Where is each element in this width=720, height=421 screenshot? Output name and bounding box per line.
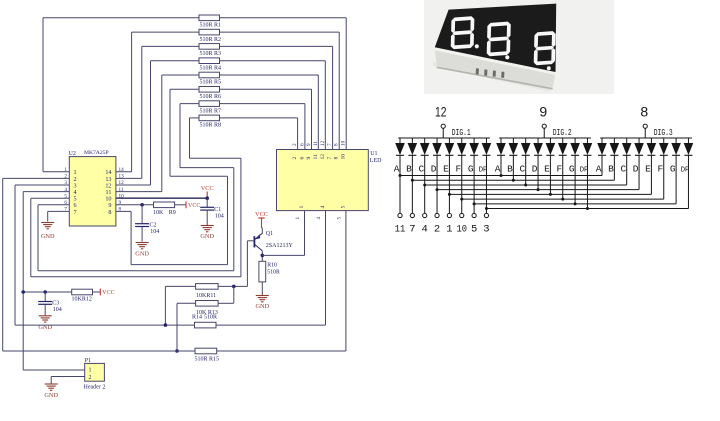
- wire R7 drop to U1 pin: [304, 104, 306, 150]
- wire U2 pin10 to VCC/C1 node: [116, 197, 207, 199]
- diode DIG.1 seg D: [436, 138, 438, 143]
- svg-text:C1: C1: [214, 207, 221, 213]
- diode DIG.2 seg C: [525, 138, 527, 143]
- wire P1 pin2 to ground: [51, 376, 84, 378]
- diode DIG.3 seg DP: [687, 138, 689, 143]
- svg-text:4: 4: [320, 206, 326, 209]
- svg-text:10K: 10K: [153, 210, 164, 216]
- wire U2 pin4 left/down to P1: [23, 191, 69, 193]
- svg-text:10: 10: [119, 193, 125, 199]
- wire R14 row: [15, 324, 195, 326]
- svg-text:8: 8: [334, 143, 340, 146]
- wire R6 drop to U1 pin: [311, 89, 313, 149]
- wire R8 drop to U1 pin: [297, 118, 299, 150]
- diode DIG.3 seg G: [675, 138, 677, 143]
- resistor R5: [199, 72, 220, 78]
- digit 8. #3: [534, 31, 556, 66]
- svg-text:DIG.2: DIG.2: [553, 127, 572, 138]
- svg-text:2: 2: [292, 143, 298, 146]
- wire U2 pin8 down: [116, 210, 131, 212]
- svg-text:7: 7: [64, 207, 67, 213]
- svg-text:2: 2: [89, 375, 92, 381]
- node R13/R15: [175, 349, 179, 353]
- decimal point 1: [475, 44, 479, 48]
- cathode pin 4: [424, 155, 426, 213]
- node C3 top: [43, 290, 47, 294]
- junction DIG.1 DP: [485, 207, 488, 210]
- svg-text:1: 1: [295, 217, 301, 220]
- diode DIG.1 seg G: [473, 138, 475, 143]
- cathode pin 10: [461, 155, 463, 213]
- svg-text:GND: GND: [135, 251, 149, 258]
- wire U2 pin3 left/down: [15, 184, 69, 186]
- svg-text:10: 10: [457, 224, 468, 236]
- net segment F bus: [462, 198, 664, 200]
- stub DIG.2 B: [512, 155, 514, 180]
- wire U2 pin11 to R5: [116, 191, 162, 193]
- svg-text:12: 12: [320, 140, 326, 146]
- wire R11 left: [165, 285, 195, 287]
- svg-text:C3: C3: [52, 300, 59, 306]
- wire U2 pin7 to ground: [48, 210, 70, 212]
- svg-text:11: 11: [395, 224, 406, 236]
- capacitor C1: [206, 198, 208, 207]
- junction DIG.1 E: [448, 193, 451, 196]
- svg-text:VCC: VCC: [102, 290, 114, 296]
- svg-text:11: 11: [313, 141, 319, 146]
- svg-text:C: C: [620, 164, 626, 175]
- cathode pin 7: [411, 155, 413, 213]
- anode bus DIG.3: [600, 137, 692, 139]
- wire U2 pin6 stub: [38, 204, 69, 206]
- stub DIG.2 A: [500, 155, 502, 175]
- decimal point 2: [505, 55, 509, 59]
- wire R7 right: [220, 103, 305, 105]
- svg-text:9: 9: [119, 200, 122, 206]
- svg-text:LED: LED: [370, 158, 382, 164]
- resistor R2: [199, 29, 220, 35]
- svg-text:2: 2: [64, 174, 67, 180]
- stub DIG.2 E: [549, 155, 551, 194]
- diode DIG.3 seg D: [638, 138, 640, 143]
- wire U2 pin1 to R1: [42, 18, 44, 172]
- svg-text:10: 10: [341, 154, 347, 160]
- wire R8 left: [190, 117, 200, 119]
- svg-text:510R R6: 510R R6: [200, 94, 222, 100]
- stub DIG.3 B: [613, 155, 615, 180]
- svg-text:510R R7: 510R R7: [200, 108, 222, 114]
- svg-text:2SA1213Y: 2SA1213Y: [266, 243, 294, 249]
- net segment D bus: [437, 189, 639, 191]
- junction DIG.1 C: [423, 183, 426, 186]
- wire C3/R12 net: [23, 291, 71, 293]
- svg-text:7: 7: [327, 143, 333, 146]
- net segment DP bus: [486, 208, 688, 210]
- svg-text:510R R2: 510R R2: [200, 37, 222, 43]
- svg-text:8: 8: [119, 207, 122, 213]
- diode DIG.3 seg C: [626, 138, 628, 143]
- diode DIG.2 seg B: [512, 138, 514, 143]
- diode DIG.1 seg C: [424, 138, 426, 143]
- svg-text:4: 4: [422, 224, 428, 236]
- stub DIG.3 DP: [687, 155, 689, 208]
- node pin9/C2 junction: [140, 203, 144, 207]
- junction DIG.2 E: [549, 193, 552, 196]
- svg-text:11: 11: [313, 154, 319, 160]
- pin 12 common anode: [441, 124, 445, 128]
- svg-text:D: D: [633, 164, 639, 175]
- svg-text:C2: C2: [150, 222, 157, 228]
- diode DIG.2 seg E: [549, 138, 551, 143]
- anode bus DIG.1: [398, 137, 490, 139]
- resistor R15: [195, 348, 217, 354]
- junction DIG.1 F: [460, 198, 463, 201]
- wire R13 right: [218, 302, 234, 304]
- diode DIG.3 seg F: [663, 138, 665, 143]
- svg-text:1: 1: [446, 224, 452, 236]
- diode DIG.3 seg E: [650, 138, 652, 143]
- diode DIG.1 seg F: [461, 138, 463, 143]
- ground C3: [39, 315, 52, 317]
- wire R2 right: [220, 31, 340, 33]
- svg-text:510R R15: 510R R15: [195, 356, 220, 362]
- svg-text:6: 6: [299, 143, 305, 146]
- svg-text:9: 9: [539, 104, 547, 120]
- wire base to R11 node: [247, 240, 254, 242]
- stub DIG.3 F: [663, 155, 665, 199]
- svg-text:10: 10: [341, 140, 347, 146]
- wire R5 left: [162, 74, 199, 76]
- svg-text:A: A: [394, 164, 400, 175]
- svg-text:GND: GND: [44, 392, 58, 399]
- header P1: [85, 363, 105, 381]
- wire R6 right: [220, 88, 312, 90]
- wire U2 pin5 stub: [31, 197, 70, 199]
- svg-text:5: 5: [64, 193, 67, 199]
- junction DIG.2 G: [574, 202, 577, 205]
- svg-text:510R R5: 510R R5: [200, 80, 222, 86]
- svg-text:P1: P1: [85, 358, 91, 364]
- diode DIG.3 seg A: [601, 138, 603, 143]
- diode DIG.3 seg B: [613, 138, 615, 143]
- node P1 branch: [21, 290, 25, 294]
- cathode pin 11: [399, 155, 401, 213]
- svg-text:7: 7: [327, 157, 333, 160]
- svg-text:3: 3: [483, 224, 489, 236]
- stub DIG.2 D: [537, 155, 539, 189]
- svg-text:6: 6: [299, 157, 305, 160]
- svg-text:2: 2: [292, 157, 298, 160]
- svg-text:G: G: [468, 164, 474, 175]
- svg-text:DIG.3: DIG.3: [654, 127, 673, 138]
- wire route R6 to U2 pin8: [169, 89, 171, 176]
- svg-text:C: C: [519, 164, 525, 175]
- net segment B bus: [412, 179, 614, 181]
- wire R12 to VCC: [93, 291, 101, 293]
- svg-text:GND: GND: [41, 233, 55, 240]
- wire U1 pin5 drop: [345, 211, 347, 351]
- transistor Q1 2SA1213Y: [261, 228, 263, 234]
- svg-text:B: B: [507, 164, 513, 175]
- svg-text:D: D: [532, 164, 538, 175]
- resistor R14: [195, 322, 217, 328]
- wire R4 drop to U1 pin: [324, 61, 326, 150]
- digit 8. #1: [451, 16, 475, 49]
- wire route R8 to U2 pin5: [189, 118, 191, 158]
- wire R7 left: [180, 103, 199, 105]
- svg-text:3: 3: [64, 180, 67, 186]
- svg-text:12: 12: [435, 104, 447, 120]
- wire R5 drop to U1 pin: [317, 75, 319, 150]
- diode DIG.1 seg A: [399, 138, 401, 143]
- wire R4 left: [151, 60, 200, 62]
- net segment G bus: [474, 203, 676, 205]
- junction DIG.2 DP: [586, 207, 589, 210]
- resistor R9: [154, 202, 175, 208]
- svg-text:5: 5: [336, 217, 342, 220]
- diode DIG.1 seg E: [448, 138, 450, 143]
- wire C2 stem: [141, 205, 143, 224]
- svg-text:10KR11: 10KR11: [196, 293, 216, 299]
- wire R1 left: [43, 17, 199, 19]
- ground P1: [45, 383, 58, 385]
- svg-text:8: 8: [640, 104, 648, 120]
- svg-text:G: G: [670, 164, 676, 175]
- junction DIG.1 G: [473, 202, 476, 205]
- svg-text:GND: GND: [255, 303, 269, 310]
- stub DIG.3 D: [638, 155, 640, 189]
- wire R4 right: [220, 60, 326, 62]
- svg-text:Header 2: Header 2: [84, 385, 106, 391]
- junction DIG.1 D: [436, 188, 439, 191]
- stub DIG.3 A: [601, 155, 603, 175]
- resistor R6: [199, 87, 220, 93]
- cathode pin 1: [448, 155, 450, 213]
- stub DIG.2 C: [525, 155, 527, 185]
- diode DIG.2 seg A: [500, 138, 502, 143]
- cathode pin 3: [485, 155, 487, 213]
- diode DIG.2 seg F: [562, 138, 564, 143]
- wire R3 right: [220, 45, 333, 47]
- svg-text:VCC: VCC: [255, 211, 268, 218]
- resistor R8: [199, 115, 220, 121]
- svg-text:9: 9: [306, 143, 312, 146]
- svg-text:8: 8: [334, 157, 340, 160]
- ground U2 pin7: [41, 222, 54, 224]
- svg-text:14: 14: [119, 167, 125, 173]
- photo 3-digit 7-segment display module: [424, 0, 614, 94]
- svg-text:B: B: [608, 164, 614, 175]
- diode DIG.2 seg G: [574, 138, 576, 143]
- resistor R13: [196, 301, 219, 307]
- svg-text:8: 8: [108, 209, 111, 216]
- wire R1 drop to U1 pin: [345, 18, 347, 150]
- power VCC at R12: [99, 289, 101, 296]
- IC U1 LED display: [277, 150, 369, 211]
- svg-text:104: 104: [150, 229, 159, 235]
- svg-text:Q1: Q1: [266, 231, 273, 237]
- resistor R10: [259, 261, 266, 282]
- pin 9 common anode: [542, 124, 546, 128]
- svg-text:A: A: [495, 164, 501, 175]
- decimal point 3: [547, 66, 551, 70]
- digit 8. #2: [487, 21, 511, 56]
- svg-text:E: E: [544, 164, 550, 175]
- resistor R12: [72, 289, 93, 295]
- wire U2 pin2 left/down: [3, 177, 70, 179]
- svg-text:E: E: [443, 164, 449, 175]
- svg-text:MK7A25P: MK7A25P: [84, 150, 109, 156]
- svg-text:GND: GND: [200, 233, 214, 240]
- svg-text:7: 7: [409, 224, 415, 236]
- svg-text:9: 9: [306, 157, 312, 160]
- ground C1: [201, 225, 214, 227]
- resistor R11: [196, 284, 219, 290]
- junction DIG.2 C: [524, 183, 527, 186]
- resistor R1: [199, 15, 220, 21]
- svg-text:510R: 510R: [267, 270, 280, 276]
- svg-text:VCC: VCC: [188, 203, 200, 209]
- junction DIG.2 A: [500, 174, 503, 177]
- junction DIG.2 B: [512, 179, 515, 182]
- svg-text:104: 104: [215, 214, 224, 220]
- svg-text:7: 7: [74, 209, 77, 216]
- stub DIG.2 G: [574, 155, 576, 204]
- svg-text:5: 5: [471, 224, 477, 236]
- wire R2 left: [132, 31, 199, 33]
- svg-text:E: E: [645, 164, 651, 175]
- wire R10 to ground: [261, 282, 263, 295]
- svg-text:13: 13: [119, 174, 125, 180]
- power VCC at R9: [185, 201, 187, 208]
- resistor R3: [199, 44, 220, 50]
- IC U2 MK7A25P: [69, 157, 116, 226]
- svg-text:R9: R9: [169, 210, 176, 216]
- cathode pin 5: [473, 155, 475, 213]
- junction DIG.1 A: [399, 174, 402, 177]
- stub DIG.3 G: [675, 155, 677, 204]
- wire U2 pin14 to R2: [116, 171, 132, 173]
- diode DIG.2 seg D: [537, 138, 539, 143]
- junction DIG.1 B: [411, 179, 414, 182]
- wire R1 right: [220, 17, 347, 19]
- wire R11 right to base: [218, 285, 247, 287]
- wire R6 left: [170, 88, 199, 90]
- resistor R7: [199, 101, 220, 107]
- wire U2 pin13 to R3: [116, 177, 142, 179]
- node R11/R14: [164, 323, 168, 327]
- svg-text:104: 104: [53, 307, 62, 313]
- diode DIG.1 seg DP: [485, 138, 487, 143]
- svg-text:12: 12: [119, 180, 125, 186]
- wire R5 right: [220, 74, 319, 76]
- stub DIG.2 F: [562, 155, 564, 199]
- junction DIG.2 D: [537, 188, 540, 191]
- svg-text:510R R3: 510R R3: [200, 51, 222, 57]
- svg-text:F: F: [556, 164, 562, 175]
- svg-text:10KR12: 10KR12: [72, 297, 92, 303]
- svg-text:4: 4: [64, 187, 67, 193]
- svg-text:11: 11: [119, 187, 124, 193]
- net segment C bus: [425, 184, 627, 186]
- svg-text:D: D: [431, 164, 437, 175]
- diode DIG.1 seg B: [411, 138, 413, 143]
- capacitor C2: [135, 223, 149, 225]
- wire P1 pin1: [23, 369, 84, 371]
- svg-text:6: 6: [64, 200, 67, 206]
- svg-text:12: 12: [320, 154, 326, 160]
- wire U2 pin12 to R4: [116, 184, 151, 186]
- stub DIG.3 C: [626, 155, 628, 185]
- pin 8 common anode: [643, 124, 647, 128]
- stub DIG.3 E: [650, 155, 652, 194]
- svg-text:F: F: [657, 164, 663, 175]
- svg-text:510R R4: 510R R4: [200, 65, 222, 71]
- wire R9 to VCC: [175, 204, 186, 206]
- svg-text:B: B: [406, 164, 412, 175]
- svg-text:R10: R10: [267, 263, 277, 269]
- svg-text:C: C: [418, 164, 424, 175]
- net segment A bus: [400, 175, 602, 177]
- wire R13 left: [177, 302, 196, 304]
- svg-text:U2: U2: [69, 151, 76, 157]
- svg-text:510R R8: 510R R8: [200, 123, 222, 129]
- svg-text:510R R1: 510R R1: [200, 23, 222, 29]
- wire R15 row: [3, 350, 195, 352]
- wire R3 drop to U1 pin: [332, 46, 334, 149]
- svg-text:2: 2: [434, 224, 440, 236]
- resistor R4: [199, 58, 220, 64]
- wire route R7 to U2 pin6: [179, 104, 181, 168]
- stub DIG.2 DP: [586, 155, 588, 208]
- wire U1 pin4 drop: [325, 211, 327, 326]
- svg-text:1: 1: [89, 368, 92, 374]
- svg-text:4: 4: [316, 217, 322, 220]
- svg-text:VCC: VCC: [201, 185, 214, 192]
- node VCC/C1: [205, 196, 209, 200]
- svg-text:1: 1: [64, 167, 67, 173]
- wire collector to U1 pin1: [262, 254, 304, 256]
- svg-text:A: A: [596, 164, 602, 175]
- diode DIG.2 seg DP: [586, 138, 588, 143]
- wire R8 right: [220, 117, 298, 119]
- ground C2: [136, 242, 149, 244]
- svg-text:G: G: [569, 164, 575, 175]
- svg-text:5: 5: [340, 206, 346, 209]
- node Q1 collector: [261, 254, 265, 258]
- wire R3 left: [142, 45, 199, 47]
- svg-text:1: 1: [299, 206, 305, 209]
- wire R2 drop to U1 pin: [338, 32, 340, 149]
- svg-text:U1: U1: [370, 151, 377, 157]
- svg-text:10K R13: 10K R13: [196, 310, 218, 316]
- net segment E bus: [449, 193, 651, 195]
- svg-text:DIG.1: DIG.1: [452, 127, 471, 138]
- node R11/R13: [232, 285, 236, 289]
- ground R10: [256, 295, 269, 297]
- anode bus DIG.2: [499, 137, 591, 139]
- wire U2 pin9 to R9: [116, 204, 154, 206]
- cathode pin 2: [436, 155, 438, 213]
- capacitor C3: [44, 292, 46, 302]
- svg-text:F: F: [455, 164, 461, 175]
- junction DIG.2 F: [561, 198, 564, 201]
